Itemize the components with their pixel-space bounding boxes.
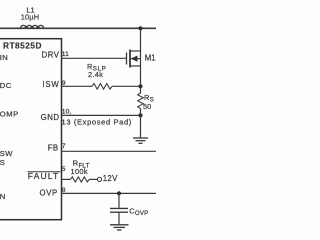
- junction node top rail / drain: [138, 26, 142, 30]
- pin GND number 13 (Exposed Pad): [62, 118, 132, 127]
- transistor M1 reference label: [145, 54, 156, 63]
- svg-text:50: 50: [143, 102, 151, 111]
- svg-text:100k: 100k: [71, 167, 88, 176]
- resistor RSLP reference label: [87, 62, 107, 73]
- resistor RS: [138, 93, 144, 109]
- svg-text:ISW: ISW: [42, 80, 59, 89]
- resistor RFLT: [71, 177, 90, 182]
- svg-text:FAULT: FAULT: [28, 171, 60, 181]
- transistor M1 NMOS: [127, 50, 141, 68]
- inductor L1: [21, 25, 44, 28]
- inductor L1 reference label: [26, 5, 34, 14]
- pin label VDC (clipped): [0, 81, 12, 90]
- pin OVP number 8: [62, 187, 66, 194]
- pin GND label: [41, 113, 60, 122]
- wire ISW to RSLP: [62, 85, 93, 87]
- resistor RS reference label (clipped): [144, 93, 154, 104]
- svg-text:IN: IN: [0, 53, 8, 62]
- ground symbol at COVP: [110, 225, 129, 230]
- wire FAULT to RFLT: [62, 178, 71, 180]
- svg-text:2.4k: 2.4k: [88, 70, 103, 79]
- pin DRV label: [42, 50, 60, 59]
- svg-text:N: N: [0, 192, 5, 201]
- svg-text:COVP: COVP: [129, 206, 148, 217]
- wire capacitor to ground: [118, 212, 120, 224]
- pin OVP label: [40, 189, 58, 198]
- inductor L1 value label 10uH: [21, 13, 40, 22]
- pin label S (clipped): [0, 158, 5, 167]
- wire DRV to gate of M1: [62, 57, 127, 59]
- pin FAULT label with overline: [28, 171, 61, 181]
- junction node ISW / RS: [138, 84, 142, 88]
- wire GND to ground: [62, 114, 141, 116]
- junction node OVP / COVP: [117, 191, 121, 195]
- svg-text:10µH: 10µH: [21, 13, 40, 22]
- pin label EN (clipped): [0, 192, 5, 201]
- pin ISW label: [42, 80, 59, 89]
- pin GND number 10,: [62, 109, 72, 116]
- wire FB to right edge: [62, 150, 157, 152]
- pin label SW (clipped): [0, 149, 13, 158]
- wire source of M1 to ISW node: [140, 66, 142, 93]
- svg-text:OMP: OMP: [0, 110, 19, 119]
- svg-text:DRV: DRV: [42, 50, 60, 59]
- wire top VIN rail: [0, 27, 156, 29]
- svg-text:RT8525D: RT8525D: [3, 40, 42, 50]
- svg-text:10,: 10,: [62, 109, 72, 116]
- pin label VIN (clipped): [0, 53, 8, 62]
- svg-text:OVP: OVP: [40, 189, 58, 198]
- pin FB number 7: [62, 143, 66, 150]
- wire RS to ground node: [140, 109, 142, 116]
- wire OVP to right edge: [62, 192, 157, 194]
- svg-text:SW: SW: [0, 149, 13, 158]
- resistor RSLP value label 2.4k: [88, 70, 103, 79]
- svg-text:5: 5: [62, 166, 66, 173]
- wire ground stub below GND node: [140, 115, 142, 137]
- svg-text:FB: FB: [48, 144, 59, 153]
- pin DRV number 11: [62, 51, 69, 58]
- pin label COMP (clipped): [0, 110, 19, 119]
- pin FAULT number 5: [62, 166, 66, 173]
- IC U1 part name label RT8525D: [3, 40, 42, 50]
- pin FB label: [48, 144, 59, 153]
- svg-text:S: S: [0, 158, 5, 167]
- wire RSLP to sense node: [112, 85, 141, 87]
- svg-text:M1: M1: [145, 54, 156, 63]
- wire drain of M1 to top rail: [140, 28, 142, 51]
- svg-text:7: 7: [62, 143, 66, 150]
- resistor RS value label (clipped): [143, 102, 151, 111]
- junction node GND / RS: [138, 113, 142, 117]
- ground symbol at RS: [133, 138, 148, 143]
- IC U1 RT8525D box: [0, 39, 62, 220]
- svg-text:12V: 12V: [103, 174, 118, 183]
- resistor RSLP: [92, 84, 112, 90]
- svg-text:DC: DC: [0, 81, 12, 90]
- pin ISW number 9: [62, 80, 66, 87]
- svg-text:GND: GND: [41, 113, 60, 122]
- resistor RFLT value label 100k: [71, 167, 88, 176]
- capacitor COVP reference label: [129, 206, 148, 217]
- wire OVP node to capacitor: [118, 193, 120, 207]
- wire RFLT to 12V terminal: [89, 178, 97, 180]
- resistor RFLT reference label: [73, 159, 90, 170]
- svg-text:11: 11: [62, 51, 69, 58]
- svg-text:13 (Exposed Pad): 13 (Exposed Pad): [62, 118, 132, 127]
- capacitor COVP: [110, 208, 128, 212]
- terminal circle 12V: [97, 177, 101, 181]
- net label 12V: [103, 174, 118, 183]
